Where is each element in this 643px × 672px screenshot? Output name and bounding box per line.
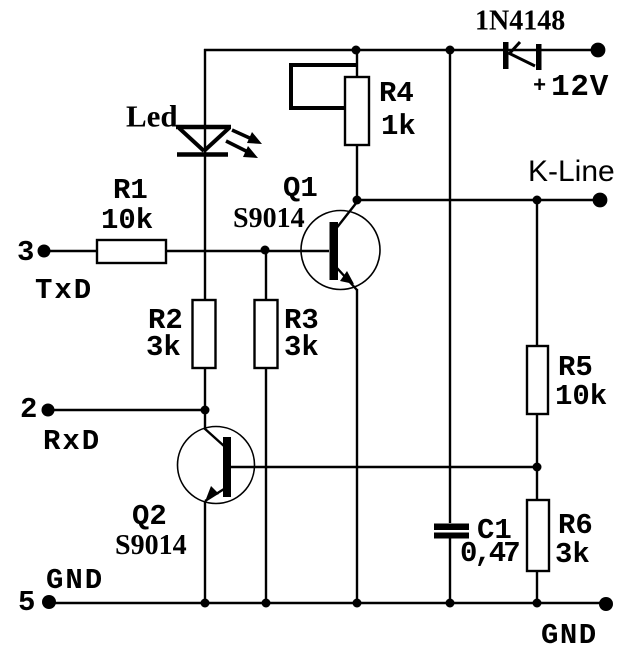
jumper loop at R4 <box>291 65 356 108</box>
resistor R2 <box>193 300 216 368</box>
transistor Q2 <box>178 427 255 504</box>
svg-text:Led: Led <box>126 99 178 134</box>
svg-text:Q1: Q1 <box>283 172 318 205</box>
svg-text:5: 5 <box>18 586 35 619</box>
junction node top R4 <box>352 46 361 55</box>
svg-text:Q2: Q2 <box>132 500 167 533</box>
svg-text:12V: 12V <box>551 70 609 105</box>
svg-text:3k: 3k <box>284 331 319 364</box>
svg-text:3: 3 <box>17 236 34 269</box>
svg-text:R1: R1 <box>113 174 148 207</box>
terminal +12V <box>591 43 606 58</box>
svg-text:2: 2 <box>20 393 37 426</box>
LED arrow 1 <box>232 130 262 144</box>
resistor R3 <box>255 300 278 368</box>
svg-text:TxD: TxD <box>35 274 93 307</box>
wire Q2 base rail <box>231 466 537 468</box>
junction node top C1 <box>446 46 455 55</box>
wire R3 column <box>265 250 267 603</box>
svg-text:3k: 3k <box>555 538 590 571</box>
resistor R6 <box>527 500 549 571</box>
wire +12V top rail <box>204 49 598 51</box>
junction node R5 R6 Q2 base <box>533 463 542 472</box>
junction node bottom Q2 <box>201 599 210 608</box>
wire RxD <box>48 409 205 411</box>
svg-text:RxD: RxD <box>43 425 101 458</box>
svg-text:1N4148: 1N4148 <box>475 6 565 37</box>
resistor R1 <box>97 240 166 263</box>
terminal K-Line <box>593 193 608 208</box>
junction node R5 top <box>533 196 542 205</box>
junction node Q1 collector K-Line <box>353 196 362 205</box>
svg-text:GND: GND <box>46 564 104 597</box>
LED arrow 2 <box>226 141 258 158</box>
wire GND bottom rail <box>49 602 606 604</box>
terminal pin 3 <box>38 245 51 258</box>
junction node R3 top <box>261 246 270 255</box>
svg-text:10k: 10k <box>101 204 153 237</box>
svg-text:3k: 3k <box>146 331 181 364</box>
svg-text:K-Line: K-Line <box>528 155 615 188</box>
svg-text:1k: 1k <box>381 110 416 143</box>
terminal pin 2 <box>42 404 55 417</box>
diode D1 1N4148 <box>503 42 542 70</box>
resistor R4 <box>345 77 369 145</box>
junction node bottom R3 <box>262 599 271 608</box>
resistor R5 <box>527 346 548 414</box>
wire R4 column <box>356 50 358 200</box>
LED symbol <box>176 127 231 155</box>
wire R5 column <box>536 200 538 467</box>
svg-text:+: + <box>533 74 546 99</box>
junction node bottom Q1 <box>353 599 362 608</box>
wire Q1 emitter column <box>356 289 358 603</box>
svg-text:0,47: 0,47 <box>460 537 519 570</box>
wire C1 column <box>449 50 451 603</box>
junction node RxD <box>201 406 210 415</box>
svg-text:S9014: S9014 <box>115 530 187 561</box>
transistor Q1 <box>301 202 380 290</box>
svg-text:R4: R4 <box>379 77 414 110</box>
wire TxD to R1 to Q1 base <box>44 250 329 252</box>
wire K-Line rail <box>357 199 600 201</box>
capacitor C1 plates <box>434 524 469 539</box>
terminal pin 5 <box>42 595 56 609</box>
svg-text:S9014: S9014 <box>233 203 305 234</box>
wire LED/R2 column <box>204 49 206 603</box>
label +12V <box>533 70 609 105</box>
junction node bottom R6 <box>533 599 542 608</box>
terminal GND right <box>599 597 613 611</box>
wire R6 column <box>536 467 538 603</box>
svg-text:GND: GND <box>541 619 598 652</box>
svg-text:10k: 10k <box>555 380 607 413</box>
junction node bottom C1 <box>446 599 455 608</box>
